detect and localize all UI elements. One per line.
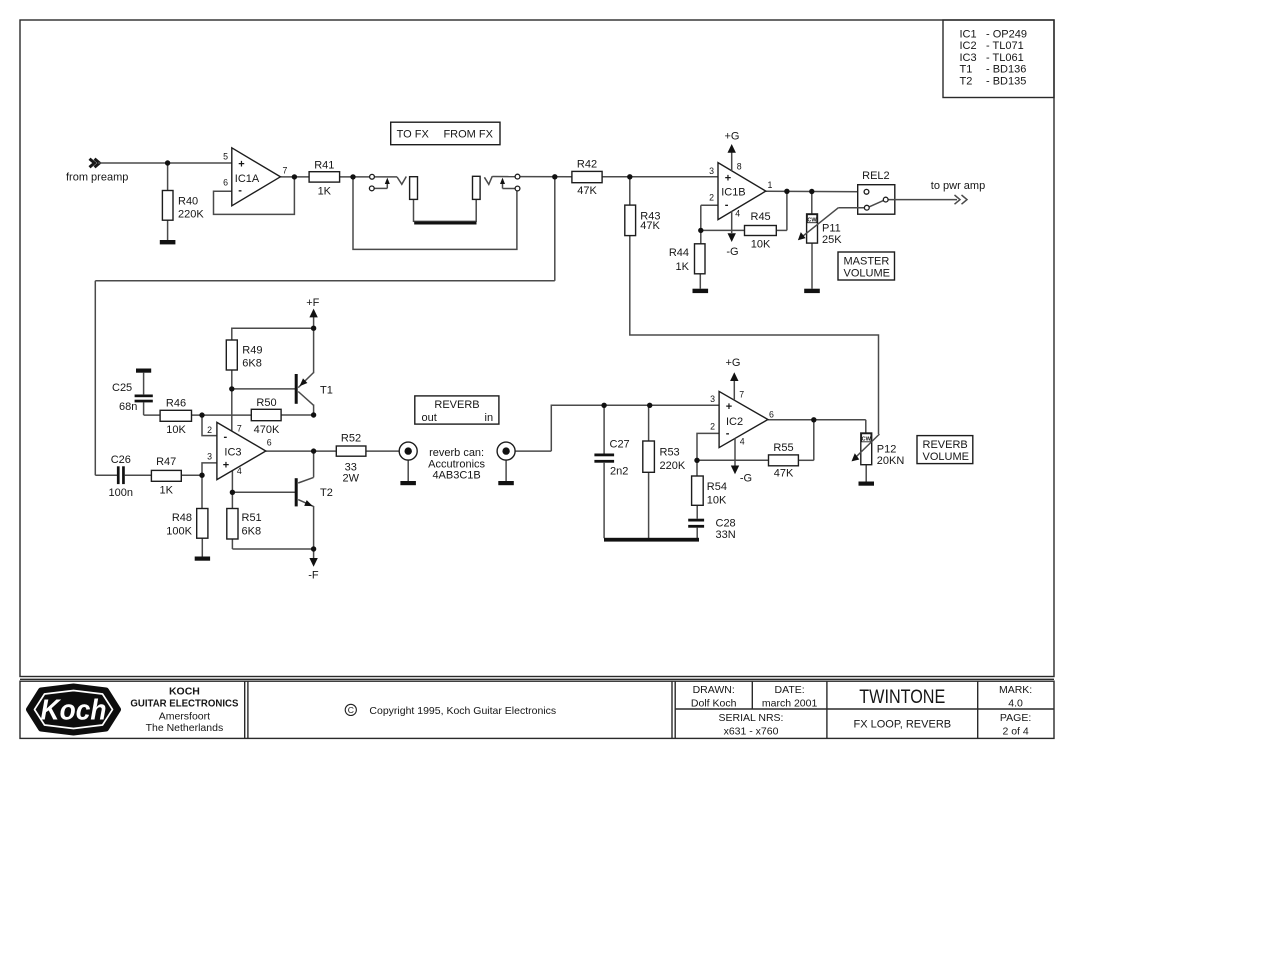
svg-text:2: 2 bbox=[709, 193, 714, 203]
svg-text:4: 4 bbox=[735, 208, 740, 218]
svg-text:6: 6 bbox=[223, 178, 228, 188]
svg-text:MASTER: MASTER bbox=[844, 255, 890, 267]
svg-text:FROM FX: FROM FX bbox=[443, 129, 493, 141]
svg-text:25K: 25K bbox=[822, 234, 842, 246]
svg-text:6K8: 6K8 bbox=[242, 358, 262, 370]
svg-text:P11: P11 bbox=[822, 223, 841, 235]
svg-text:DATE:: DATE: bbox=[775, 684, 805, 696]
svg-text:R47: R47 bbox=[156, 456, 176, 468]
svg-text:R50: R50 bbox=[256, 397, 276, 409]
svg-text:4: 4 bbox=[740, 437, 745, 447]
svg-text:The Netherlands: The Netherlands bbox=[146, 722, 224, 734]
svg-text:CW: CW bbox=[807, 218, 817, 224]
svg-text:REVERB: REVERB bbox=[434, 399, 479, 411]
svg-text:Copyright 1995, Koch Guitar El: Copyright 1995, Koch Guitar Electronics bbox=[369, 705, 556, 717]
svg-text:-F: -F bbox=[308, 570, 319, 582]
svg-text:Accutronics: Accutronics bbox=[428, 458, 485, 470]
svg-text:-: - bbox=[224, 431, 228, 443]
svg-text:R54: R54 bbox=[707, 481, 727, 493]
svg-text:IC1A: IC1A bbox=[235, 173, 260, 185]
svg-text:TWINTONE: TWINTONE bbox=[859, 687, 945, 708]
svg-text:REVERB: REVERB bbox=[923, 439, 968, 451]
svg-text:2 of 4: 2 of 4 bbox=[1002, 726, 1028, 738]
svg-text:7: 7 bbox=[237, 423, 242, 433]
svg-text:10K: 10K bbox=[751, 238, 771, 250]
svg-text:R42: R42 bbox=[577, 158, 597, 170]
svg-text:C26: C26 bbox=[111, 454, 131, 466]
svg-text:DRAWN:: DRAWN: bbox=[693, 684, 735, 696]
svg-text:R41: R41 bbox=[314, 159, 334, 171]
svg-text:IC3: IC3 bbox=[224, 447, 241, 459]
svg-text:march 2001: march 2001 bbox=[762, 697, 818, 709]
svg-text:T2: T2 bbox=[320, 487, 333, 499]
svg-text:R46: R46 bbox=[166, 397, 186, 409]
svg-text:- TL061: - TL061 bbox=[986, 52, 1024, 64]
svg-text:-: - bbox=[726, 427, 730, 439]
svg-text:33: 33 bbox=[345, 461, 357, 473]
svg-text:-G: -G bbox=[726, 246, 738, 258]
svg-text:from preamp: from preamp bbox=[66, 171, 128, 183]
svg-text:to pwr amp: to pwr amp bbox=[931, 180, 985, 192]
svg-text:GUITAR ELECTRONICS: GUITAR ELECTRONICS bbox=[130, 698, 238, 710]
svg-text:6: 6 bbox=[769, 409, 774, 419]
svg-text:10K: 10K bbox=[166, 424, 186, 436]
svg-text:47K: 47K bbox=[577, 185, 597, 197]
svg-text:R48: R48 bbox=[172, 512, 192, 524]
svg-text:REL2: REL2 bbox=[862, 170, 890, 182]
svg-text:3: 3 bbox=[207, 452, 212, 462]
svg-text:7: 7 bbox=[283, 166, 288, 176]
svg-text:470K: 470K bbox=[254, 424, 280, 436]
svg-text:+: + bbox=[223, 459, 229, 471]
svg-text:CW: CW bbox=[862, 437, 872, 443]
svg-text:- TL071: - TL071 bbox=[986, 40, 1024, 52]
svg-text:-: - bbox=[238, 185, 242, 197]
svg-text:FX LOOP, REVERB: FX LOOP, REVERB bbox=[853, 718, 951, 730]
svg-text:-: - bbox=[725, 199, 729, 211]
svg-text:2W: 2W bbox=[343, 473, 360, 485]
svg-text:47K: 47K bbox=[640, 220, 660, 232]
svg-text:8: 8 bbox=[737, 162, 742, 172]
svg-text:5: 5 bbox=[223, 151, 228, 161]
svg-text:-G: -G bbox=[740, 473, 752, 485]
svg-text:2: 2 bbox=[710, 421, 715, 431]
svg-text:3: 3 bbox=[710, 394, 715, 404]
svg-text:100n: 100n bbox=[109, 487, 133, 499]
svg-text:R52: R52 bbox=[341, 432, 361, 444]
svg-text:R55: R55 bbox=[773, 442, 793, 454]
svg-text:IC3: IC3 bbox=[960, 52, 977, 64]
svg-text:+: + bbox=[725, 173, 731, 185]
svg-text:1K: 1K bbox=[318, 186, 332, 198]
svg-text:R44: R44 bbox=[669, 247, 689, 259]
svg-text:C28: C28 bbox=[716, 518, 736, 530]
svg-text:2n2: 2n2 bbox=[610, 465, 628, 477]
svg-text:4: 4 bbox=[237, 466, 242, 476]
svg-text:- BD135: - BD135 bbox=[986, 75, 1026, 87]
svg-text:6K8: 6K8 bbox=[242, 526, 262, 538]
svg-text:1K: 1K bbox=[676, 261, 690, 273]
svg-text:3: 3 bbox=[709, 166, 714, 176]
svg-text:7: 7 bbox=[739, 390, 744, 400]
svg-text:MARK:: MARK: bbox=[999, 684, 1032, 696]
svg-text:47K: 47K bbox=[774, 468, 794, 480]
svg-text:+: + bbox=[238, 158, 244, 170]
svg-text:out: out bbox=[422, 412, 437, 424]
svg-text:PAGE:: PAGE: bbox=[1000, 712, 1031, 724]
svg-text:T1: T1 bbox=[320, 384, 333, 396]
svg-text:220K: 220K bbox=[178, 209, 204, 221]
svg-text:C27: C27 bbox=[610, 438, 630, 450]
svg-text:Amersfoort: Amersfoort bbox=[159, 710, 210, 722]
svg-text:220K: 220K bbox=[660, 460, 686, 472]
svg-text:TO FX: TO FX bbox=[397, 129, 430, 141]
svg-text:6: 6 bbox=[267, 438, 272, 448]
svg-text:+G: +G bbox=[725, 131, 740, 143]
svg-text:SERIAL NRS:: SERIAL NRS: bbox=[719, 712, 784, 724]
svg-text:100K: 100K bbox=[166, 526, 192, 538]
svg-text:+G: +G bbox=[726, 357, 741, 369]
svg-text:reverb can:: reverb can: bbox=[429, 447, 484, 459]
svg-text:Dolf Koch: Dolf Koch bbox=[691, 697, 737, 709]
svg-text:1: 1 bbox=[768, 180, 773, 190]
svg-text:4.0: 4.0 bbox=[1008, 697, 1023, 709]
svg-text:T1: T1 bbox=[960, 64, 973, 76]
svg-text:VOLUME: VOLUME bbox=[844, 267, 890, 279]
svg-text:IC1: IC1 bbox=[960, 29, 977, 41]
svg-text:T2: T2 bbox=[960, 75, 973, 87]
svg-text:4AB3C1B: 4AB3C1B bbox=[432, 470, 480, 482]
svg-text:P12: P12 bbox=[877, 444, 897, 456]
svg-text:20KN: 20KN bbox=[877, 455, 905, 467]
svg-text:IC2: IC2 bbox=[726, 416, 743, 428]
svg-text:2: 2 bbox=[207, 425, 212, 435]
svg-text:R49: R49 bbox=[242, 345, 262, 357]
svg-text:VOLUME: VOLUME bbox=[923, 451, 969, 463]
svg-text:10K: 10K bbox=[707, 495, 727, 507]
svg-text:R45: R45 bbox=[751, 211, 771, 223]
svg-text:- BD136: - BD136 bbox=[986, 64, 1026, 76]
svg-text:KOCH: KOCH bbox=[169, 685, 200, 697]
svg-text:R40: R40 bbox=[178, 196, 198, 208]
svg-text:33N: 33N bbox=[716, 529, 736, 541]
svg-text:in: in bbox=[485, 412, 494, 424]
svg-text:IC2: IC2 bbox=[960, 40, 977, 52]
svg-text:IC1B: IC1B bbox=[721, 187, 745, 199]
svg-text:C: C bbox=[348, 705, 354, 715]
svg-text:Koch: Koch bbox=[41, 695, 107, 727]
svg-text:x631 - x760: x631 - x760 bbox=[724, 726, 779, 738]
svg-text:R51: R51 bbox=[242, 512, 262, 524]
svg-text:68n: 68n bbox=[119, 401, 137, 413]
svg-text:+F: +F bbox=[306, 297, 319, 309]
svg-text:- OP249: - OP249 bbox=[986, 29, 1027, 41]
svg-text:C25: C25 bbox=[112, 382, 132, 394]
svg-text:+: + bbox=[726, 401, 732, 413]
svg-text:R53: R53 bbox=[660, 447, 680, 459]
svg-text:1K: 1K bbox=[159, 485, 173, 497]
